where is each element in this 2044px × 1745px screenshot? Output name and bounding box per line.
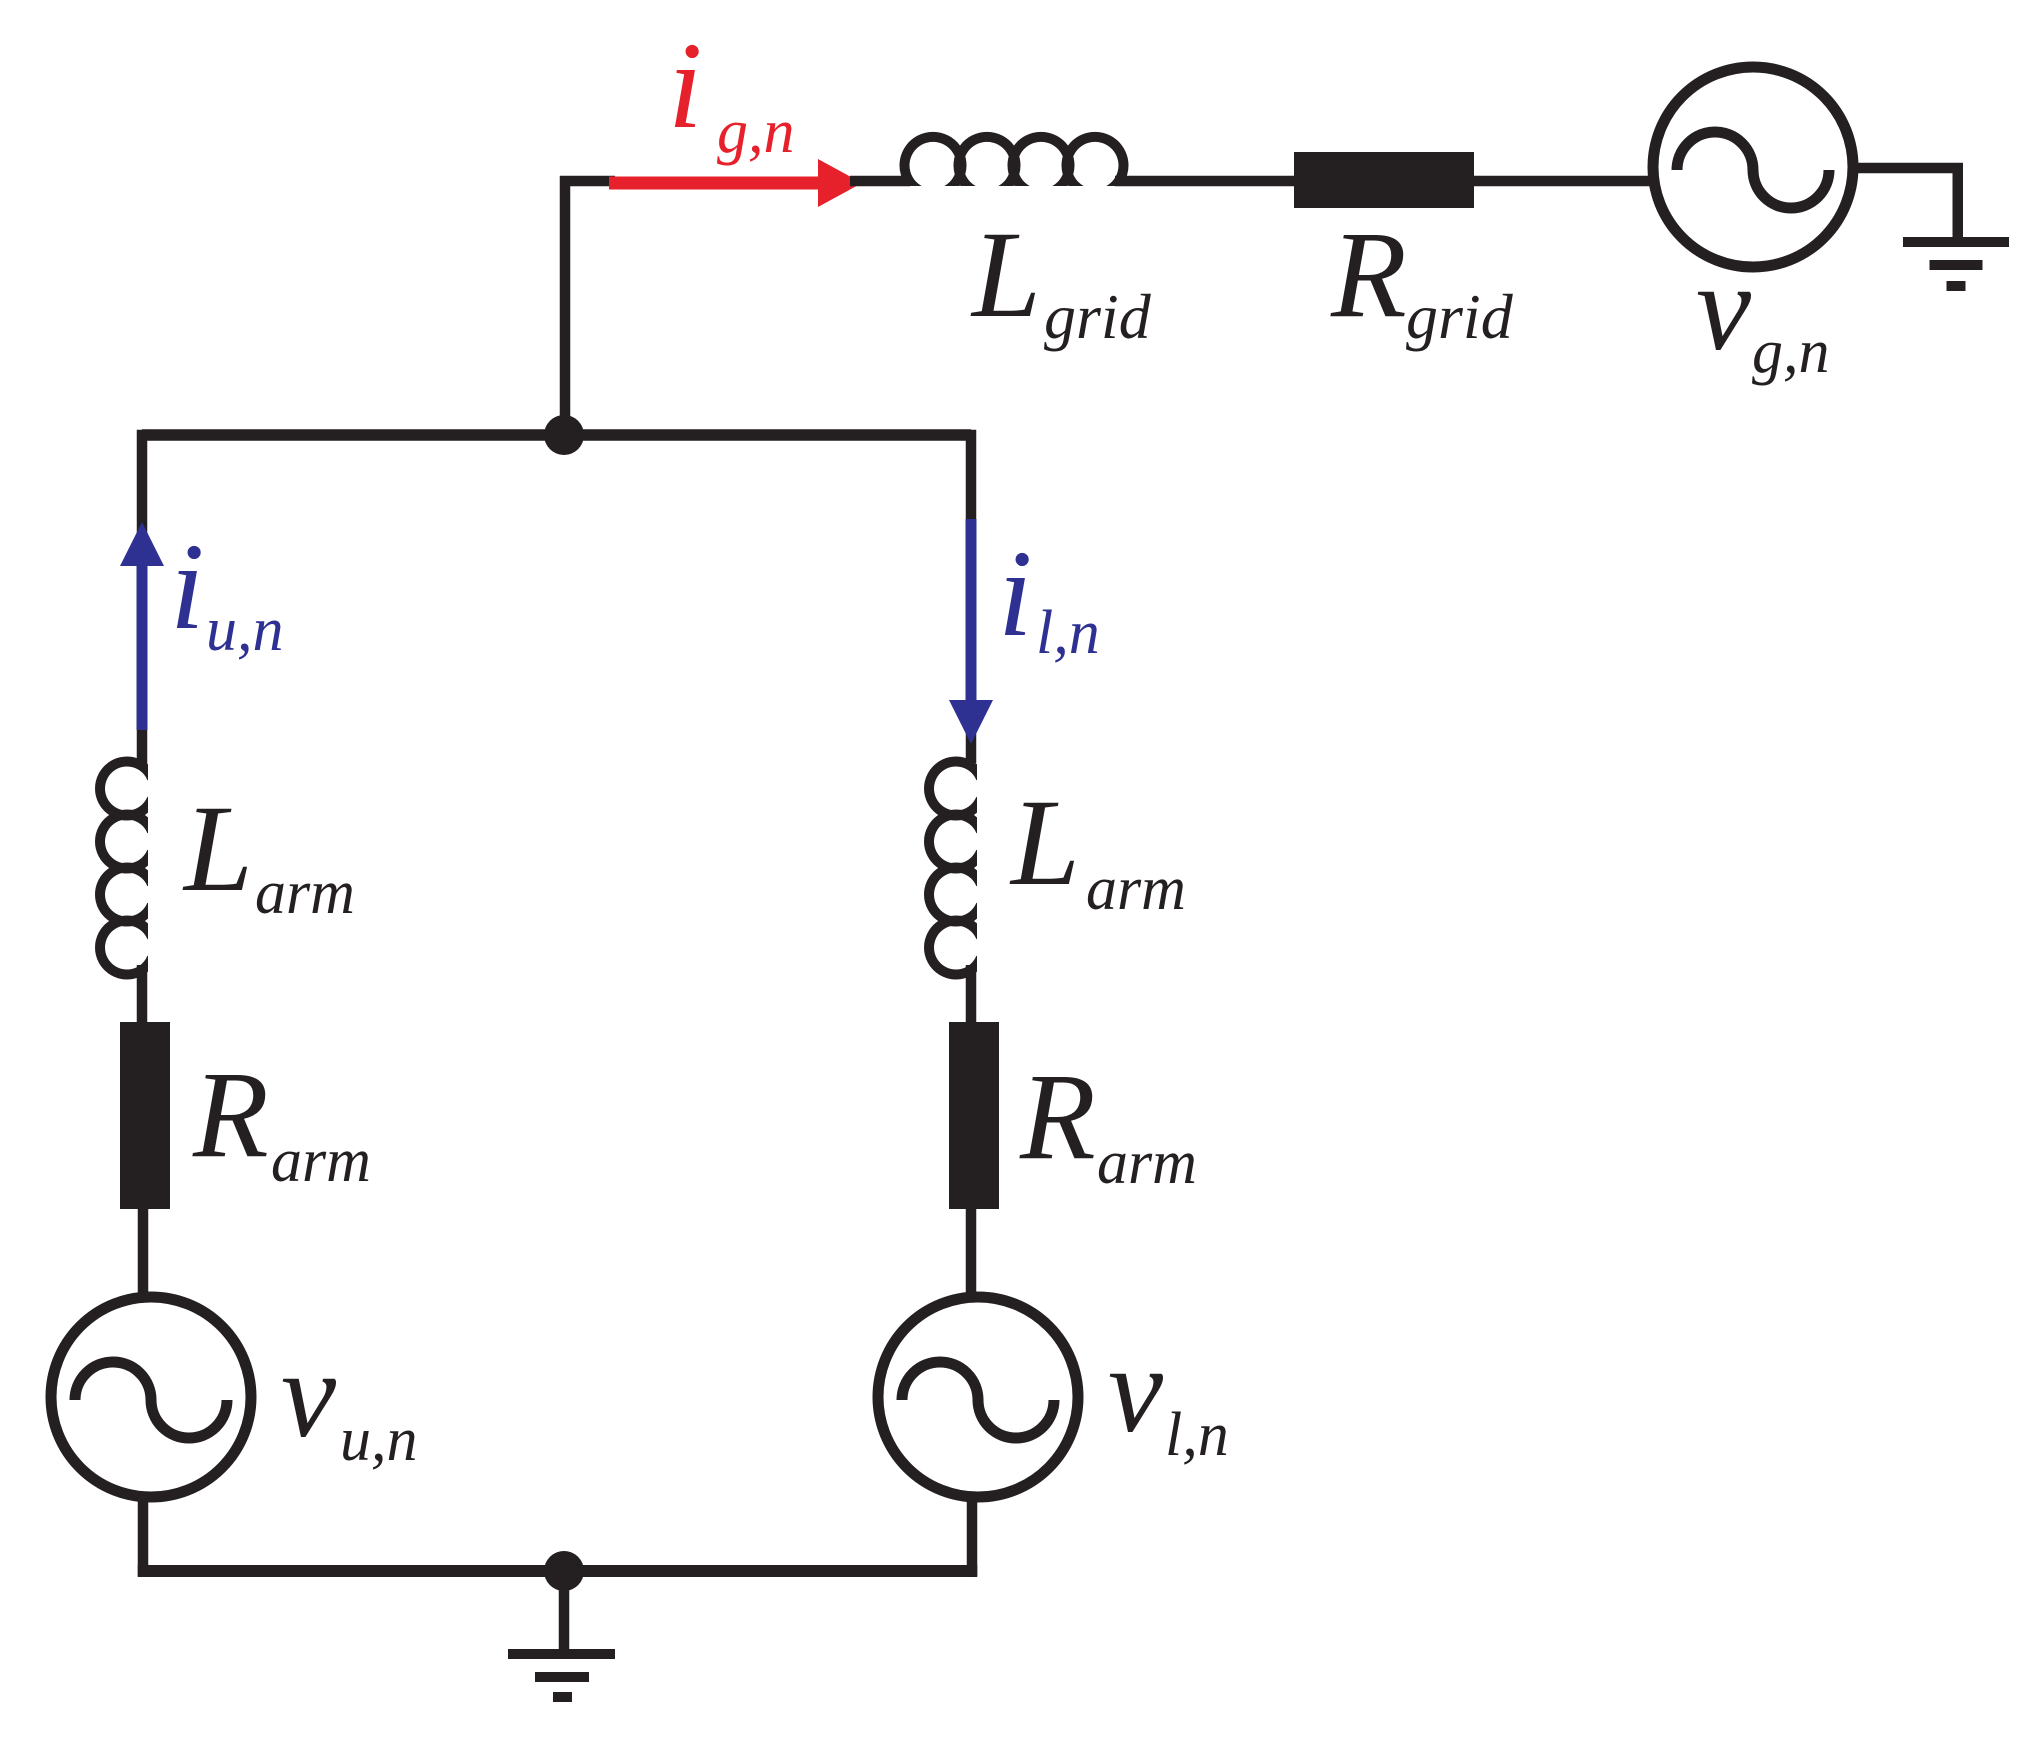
wire inductor to resistor (left) xyxy=(137,965,148,1025)
svg-text:g,n: g,n xyxy=(717,98,795,166)
label i_g,n (red) xyxy=(668,17,795,166)
svg-text:L: L xyxy=(182,780,253,917)
current arrow iu,n (blue, up) xyxy=(120,522,164,730)
wire source to ground (top right) xyxy=(1853,168,1963,240)
wire inductor to resistor (right) xyxy=(966,965,977,1025)
AC source v_u,n xyxy=(51,1297,251,1497)
wire resistor to source (left) xyxy=(138,1207,149,1300)
wire source down to bottom rail (right) xyxy=(967,1495,978,1576)
svg-text:l,n: l,n xyxy=(1165,1401,1229,1469)
AC source v_g,n xyxy=(1653,67,1853,267)
svg-text:grid: grid xyxy=(1406,281,1514,352)
svg-text:L: L xyxy=(1009,774,1080,911)
svg-text:v: v xyxy=(281,1326,337,1463)
wire top horizontal stub before arrow xyxy=(560,176,615,187)
svg-text:v: v xyxy=(1108,1321,1164,1458)
current arrow il,n (blue, down) xyxy=(949,519,993,744)
label L_arm (right) xyxy=(1009,774,1186,923)
inductor Larm (left) xyxy=(100,762,152,975)
node A junction dot xyxy=(544,415,584,455)
right vertical wire upper xyxy=(966,430,977,763)
ground stub (bottom) xyxy=(559,1571,570,1652)
svg-text:L: L xyxy=(970,206,1041,343)
label R_grid xyxy=(1330,206,1514,352)
svg-text:u,n: u,n xyxy=(340,1406,418,1474)
svg-text:arm: arm xyxy=(1086,855,1186,923)
label L_grid xyxy=(970,206,1152,352)
ground (top right) xyxy=(1903,237,2009,291)
svg-text:i: i xyxy=(998,525,1032,662)
svg-text:i: i xyxy=(668,17,702,154)
wire inductor to resistor xyxy=(1115,176,1296,187)
svg-text:u,n: u,n xyxy=(206,596,284,664)
label R_arm (right) xyxy=(1019,1048,1197,1197)
node wire horizontal (upper) xyxy=(142,429,971,441)
current arrow ig,n (red) xyxy=(609,159,862,207)
svg-text:arm: arm xyxy=(255,859,355,927)
resistor Rarm (right) xyxy=(949,1022,999,1209)
svg-text:arm: arm xyxy=(271,1127,371,1195)
svg-text:i: i xyxy=(170,518,204,655)
svg-text:R: R xyxy=(1330,206,1407,343)
resistor Rgrid xyxy=(1294,152,1474,208)
svg-text:grid: grid xyxy=(1044,281,1152,352)
bottom rail wire xyxy=(138,1565,978,1577)
wire vertical from top line down to node xyxy=(560,176,571,440)
wire source down to bottom rail (left) xyxy=(138,1495,149,1576)
label v_l,n xyxy=(1108,1321,1229,1469)
svg-text:g,n: g,n xyxy=(1752,318,1830,386)
label R_arm (left) xyxy=(192,1046,371,1195)
resistor Rarm (left) xyxy=(120,1022,170,1209)
inductor Lgrid xyxy=(905,137,1124,192)
svg-text:R: R xyxy=(192,1046,269,1183)
label i_l,n (blue) xyxy=(998,525,1100,667)
svg-text:R: R xyxy=(1019,1048,1096,1185)
left vertical wire upper xyxy=(137,430,148,765)
ground (bottom) xyxy=(508,1649,615,1702)
node B junction dot (bottom) xyxy=(544,1551,584,1591)
inductor Larm (right) xyxy=(929,762,981,975)
label L_arm (left) xyxy=(182,780,355,927)
svg-text:arm: arm xyxy=(1097,1129,1197,1197)
wire resistor to source xyxy=(1472,176,1660,187)
label v_u,n xyxy=(281,1326,418,1474)
wire resistor to source (right) xyxy=(966,1207,977,1302)
svg-text:l,n: l,n xyxy=(1036,599,1100,667)
label v_g,n xyxy=(1696,239,1830,386)
svg-text:v: v xyxy=(1696,239,1752,376)
label i_u,n (blue) xyxy=(170,518,284,664)
AC source v_l,n xyxy=(878,1297,1078,1497)
wire between arrow and inductor xyxy=(850,176,910,187)
